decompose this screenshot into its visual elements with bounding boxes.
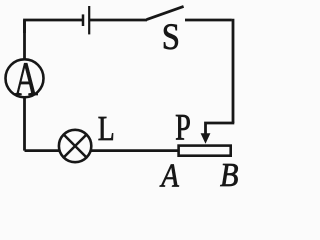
- svg-text:A: A: [159, 156, 179, 188]
- rheostat P body: [179, 146, 231, 156]
- svg-text:A: A: [14, 53, 38, 105]
- wire top-left (corner to battery): [25, 20, 84, 33]
- wire right vertical: [232, 19, 235, 123]
- lamp L: [59, 130, 91, 162]
- wire left vertical (ammeter branch): [23, 20, 26, 151]
- switch S blade (open): [147, 6, 184, 19]
- battery cell: long plate (positive): [88, 6, 90, 34]
- svg-text:S: S: [162, 16, 180, 57]
- svg-text:L: L: [98, 109, 115, 148]
- ammeter: [6, 59, 44, 97]
- wire battery to switch: [89, 19, 147, 22]
- wire jog to wiper: [206, 123, 235, 135]
- wiper arrowhead: [201, 133, 211, 144]
- wire switch to top-right corner: [185, 19, 232, 22]
- svg-text:P: P: [175, 108, 191, 149]
- wire bottom (corner to rheostat): [25, 149, 179, 152]
- battery cell: short plate (negative): [82, 14, 85, 26]
- svg-text:B: B: [220, 155, 239, 188]
